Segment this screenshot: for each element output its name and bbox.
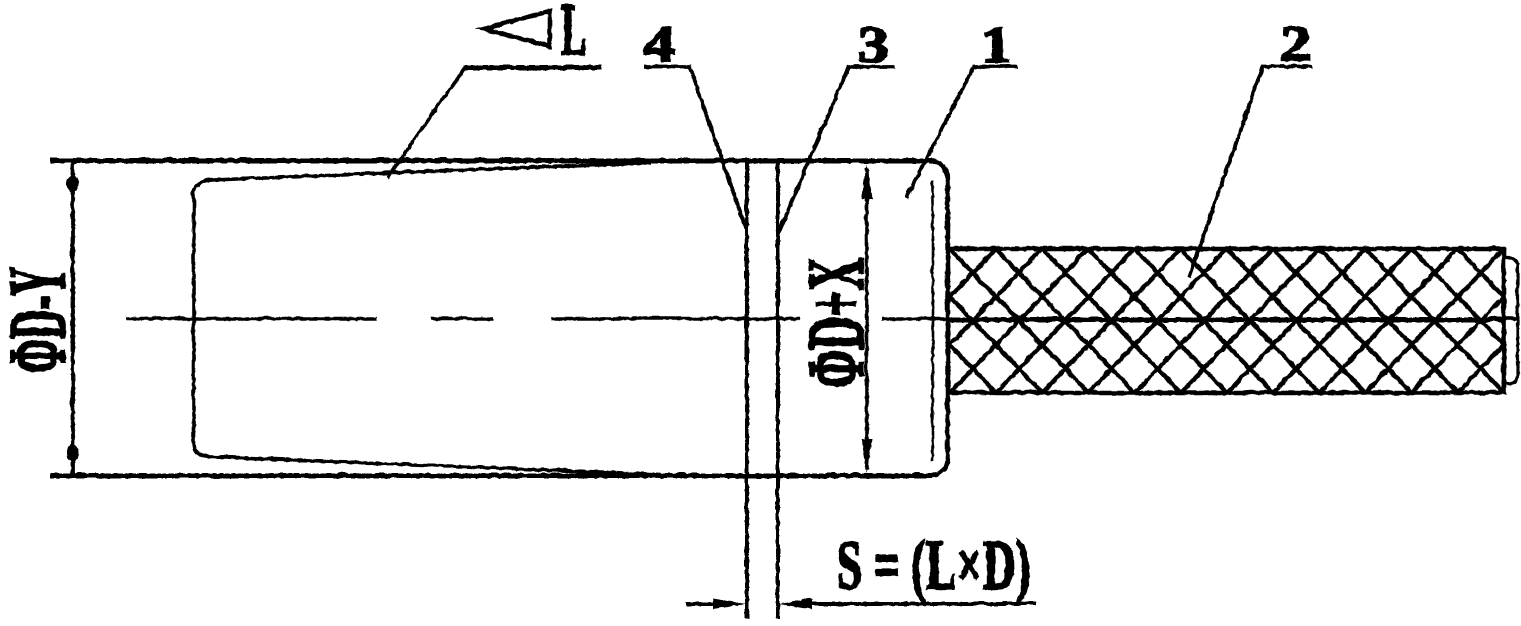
svg-text:S = (L×D): S = (L×D): [836, 526, 1030, 604]
svg-text:3: 3: [857, 17, 889, 73]
svg-text:L: L: [560, 0, 586, 71]
svg-text:1: 1: [980, 16, 1010, 73]
svg-text:ΦD-Y: ΦD-Y: [0, 266, 82, 372]
svg-text:ΦD+X: ΦD+X: [792, 257, 880, 387]
svg-text:4: 4: [643, 16, 675, 72]
svg-text:2: 2: [1279, 16, 1311, 72]
